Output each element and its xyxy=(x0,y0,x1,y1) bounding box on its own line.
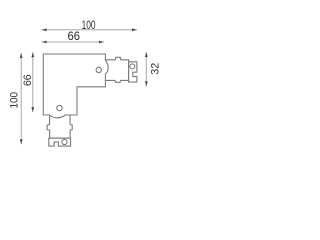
dimension line 66 (top) xyxy=(42,41,104,43)
svg-text:100: 100 xyxy=(82,20,96,32)
plate screw hole (vertical arm) xyxy=(57,105,62,110)
dimension line 66 (left inner) xyxy=(32,52,34,112)
plate screw hole (horizontal arm) xyxy=(96,67,101,72)
horizontal connector block xyxy=(105,57,128,82)
vertical end plug xyxy=(49,138,71,146)
svg-text:32: 32 xyxy=(150,63,162,75)
plug screw hole (horizontal) xyxy=(130,64,135,69)
horizontal end plug xyxy=(129,62,137,82)
L-shaped connector body plate xyxy=(43,54,108,118)
vertical connector block xyxy=(47,115,72,138)
dimension line 100 (top) xyxy=(42,29,137,31)
plug screw hole (vertical) xyxy=(62,139,67,144)
svg-text:66: 66 xyxy=(22,74,34,86)
dimension line 32 (right) xyxy=(145,52,147,86)
svg-text:66: 66 xyxy=(68,31,81,43)
svg-text:100: 100 xyxy=(9,92,21,109)
dimension line 100 (left) xyxy=(20,53,22,144)
